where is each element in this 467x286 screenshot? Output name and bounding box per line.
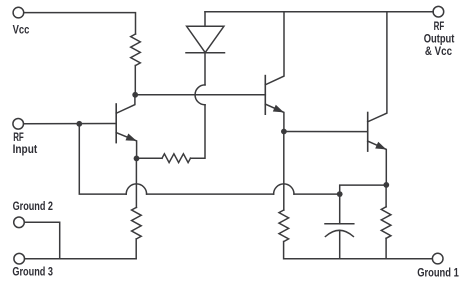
node A junction dot xyxy=(132,92,138,98)
node input junction dot xyxy=(76,121,82,127)
wire diode cathode down to hop xyxy=(204,53,206,85)
wire node C stub to node D xyxy=(340,185,387,194)
transistor Q2 emitter arrow xyxy=(273,105,284,113)
wire hop3 to capacitor node C xyxy=(294,193,340,195)
transistor Q1 collector xyxy=(116,95,135,114)
terminal RF Output xyxy=(433,6,444,17)
wire R2 left to node B xyxy=(136,157,162,159)
transistor Q3 emitter xyxy=(368,141,387,185)
wire hop over R3 column xyxy=(126,184,146,194)
wire Ground 2 to ground bus xyxy=(25,222,60,258)
wire node D down to R5 xyxy=(385,185,387,207)
wire node B down to R3 xyxy=(135,158,137,207)
wire Vcc to resistor R1 top xyxy=(24,13,136,34)
capacitor C1 flat plate xyxy=(325,223,354,225)
transistor Q3 collector xyxy=(368,12,387,122)
svg-text:Ground 2: Ground 2 xyxy=(13,199,54,213)
terminal Ground 3 xyxy=(14,253,25,264)
resistor R1 xyxy=(131,34,141,66)
wire R1 bottom to node A xyxy=(134,66,136,95)
node E2 junction dot xyxy=(281,129,287,135)
node C junction dot xyxy=(337,191,343,197)
top wire diode to RF Output xyxy=(205,11,433,13)
transistor Q1 base bar xyxy=(115,104,117,143)
node B junction dot xyxy=(134,156,140,162)
svg-text:Input: Input xyxy=(13,142,38,156)
transistor Q2 collector xyxy=(265,12,284,85)
resistor R4 xyxy=(279,210,289,242)
wire RF Input to Q1 base xyxy=(24,123,117,125)
svg-text:Ground 1: Ground 1 xyxy=(417,265,459,279)
capacitor C1 top lead xyxy=(339,194,341,224)
wire input dot down and right to hop2 xyxy=(79,124,126,194)
wire R4 bottom to ground 1 bus corner xyxy=(284,242,432,259)
wire Ground 3 bus xyxy=(25,258,137,260)
transistor Q3 emitter arrow xyxy=(375,142,386,150)
transistor Q3 base bar xyxy=(367,113,369,152)
wire R5 bottom to ground 1 bus xyxy=(385,238,387,258)
transistor Q2 base bar xyxy=(264,76,266,115)
svg-text:& Vcc: & Vcc xyxy=(425,44,452,58)
wire hop over node-A wire xyxy=(195,85,205,105)
terminal Vcc xyxy=(13,7,24,18)
wire node A to Q2 base xyxy=(135,94,265,96)
wire node E2 to Q3 base xyxy=(284,131,368,133)
resistor R3 xyxy=(132,207,142,239)
transistor Q1 emitter xyxy=(116,133,136,159)
wire hop over Q2 emitter column xyxy=(274,184,294,194)
transistor Q1 emitter arrow xyxy=(126,134,137,141)
wire node E2 down to R4 xyxy=(283,132,285,211)
diode D1 lead to top wire xyxy=(204,12,206,26)
capacitor C1 bottom lead xyxy=(339,230,341,258)
terminal Ground 2 xyxy=(14,217,25,228)
resistor R5 xyxy=(381,207,391,239)
resistor R2 xyxy=(162,154,191,163)
wire hop to resistor R2 right corner xyxy=(191,105,206,158)
transistor Q2 emitter xyxy=(265,104,284,131)
terminal RF Input xyxy=(13,119,24,130)
svg-text:Vcc: Vcc xyxy=(13,22,30,36)
svg-text:Ground 3: Ground 3 xyxy=(12,264,53,278)
diode D1 cathode bar xyxy=(186,52,225,54)
node D junction dot xyxy=(383,182,389,188)
wire hop2 to hop3 xyxy=(147,193,274,195)
terminal Ground 1 xyxy=(432,253,443,264)
wire R3 bottom to ground wire xyxy=(135,239,137,259)
capacitor C1 curved plate xyxy=(325,230,353,236)
diode D1 xyxy=(187,26,224,52)
